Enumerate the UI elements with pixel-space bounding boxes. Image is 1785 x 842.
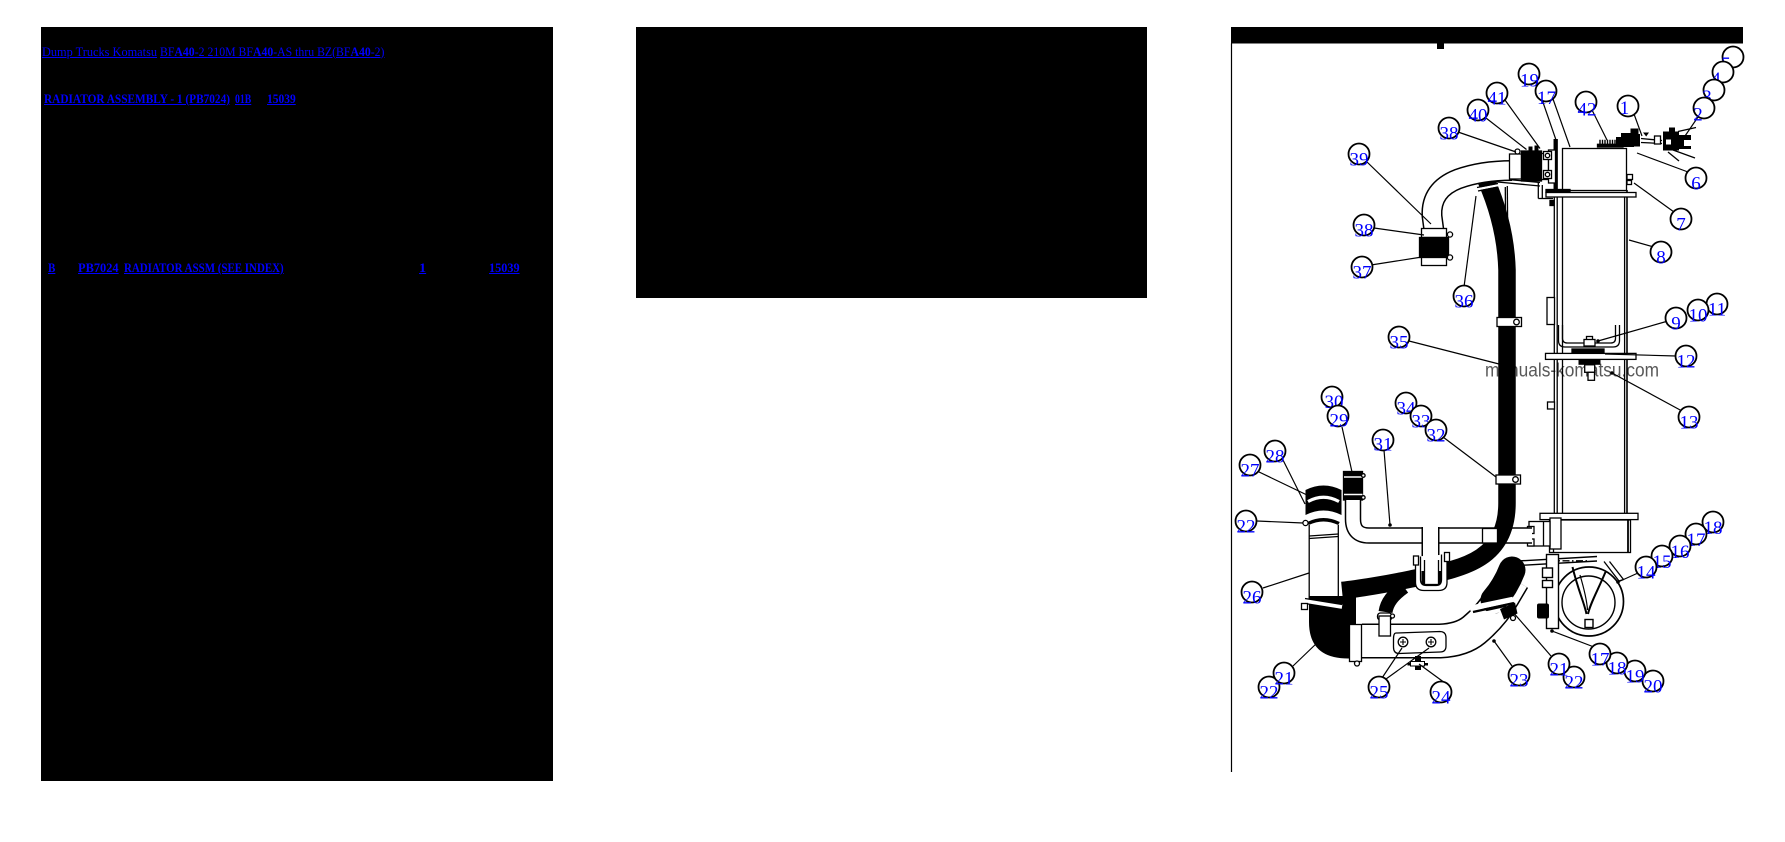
svg-text:17: 17 — [1591, 650, 1610, 671]
svg-text:39: 39 — [1350, 150, 1369, 171]
svg-text:21: 21 — [1275, 669, 1294, 690]
svg-text:13: 13 — [1680, 413, 1699, 434]
svg-text:6: 6 — [1691, 174, 1701, 195]
svg-text:42: 42 — [1578, 100, 1597, 121]
svg-text:41: 41 — [1488, 89, 1507, 110]
svg-text:24: 24 — [1432, 688, 1452, 709]
svg-text:16: 16 — [1671, 542, 1690, 563]
svg-text:28: 28 — [1266, 447, 1285, 468]
svg-text:18: 18 — [1608, 659, 1627, 680]
svg-text:23: 23 — [1510, 671, 1529, 692]
svg-text:12: 12 — [1677, 352, 1696, 373]
svg-text:26: 26 — [1243, 588, 1262, 609]
svg-text:20: 20 — [1644, 677, 1663, 698]
svg-text:1: 1 — [1620, 98, 1630, 119]
svg-text:40: 40 — [1469, 106, 1488, 127]
svg-text:38: 38 — [1355, 221, 1374, 242]
svg-text:29: 29 — [1330, 411, 1349, 432]
svg-text:10: 10 — [1689, 306, 1708, 327]
svg-text:14: 14 — [1637, 563, 1657, 584]
svg-text:32: 32 — [1427, 426, 1446, 447]
svg-text:31: 31 — [1374, 435, 1393, 456]
svg-text:35: 35 — [1390, 333, 1409, 354]
svg-text:25: 25 — [1370, 683, 1389, 704]
svg-text:17: 17 — [1537, 88, 1556, 109]
svg-text:38: 38 — [1440, 124, 1459, 145]
svg-text:19: 19 — [1626, 667, 1645, 688]
svg-text:2: 2 — [1693, 105, 1703, 126]
svg-text:9: 9 — [1671, 314, 1681, 335]
svg-text:8: 8 — [1656, 248, 1666, 269]
svg-text:21: 21 — [1550, 660, 1569, 681]
svg-text:7: 7 — [1676, 215, 1686, 236]
svg-text:22: 22 — [1237, 517, 1256, 538]
svg-text:27: 27 — [1241, 461, 1260, 482]
svg-text:37: 37 — [1353, 263, 1372, 284]
svg-text:11: 11 — [1708, 300, 1726, 321]
svg-text:36: 36 — [1455, 292, 1474, 313]
